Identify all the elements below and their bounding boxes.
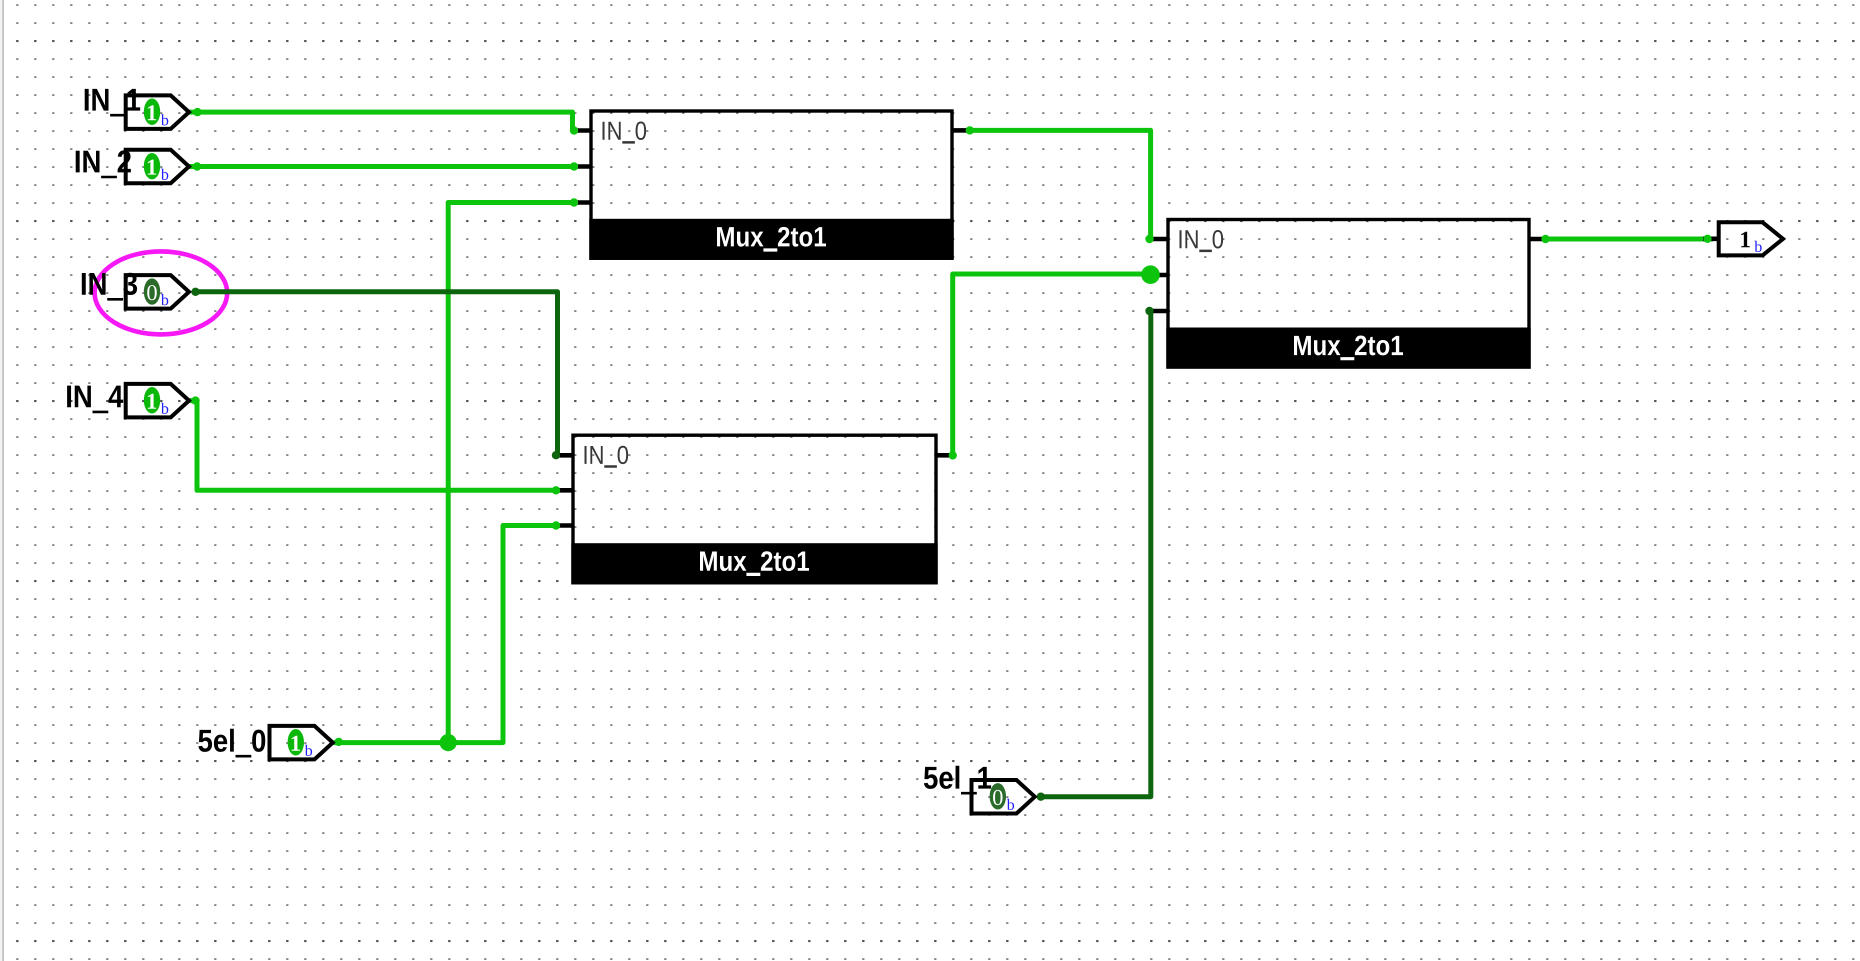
- wire terminal dot 2: [570, 126, 578, 134]
- wire net IN_3 (logic 0) to Mux U2 port IN_0: [195, 292, 558, 455]
- output pin showing value 1: [1719, 222, 1783, 255]
- dark wire terminal dot 3: [1037, 793, 1045, 801]
- wire terminal dot 4: [570, 162, 578, 170]
- wire terminal dot 11: [949, 451, 957, 459]
- wire net IN_1 to Mux U1 port IN_0: [189, 112, 573, 130]
- dark wire terminal dot 2: [552, 451, 560, 459]
- wire terminal dot 14: [335, 738, 343, 746]
- wire terminal dot 12: [1541, 235, 1549, 243]
- wire terminal dot 5: [191, 396, 199, 404]
- wire net Mux U3 output to output pin: [1546, 237, 1714, 242]
- input pin IN_2: [76, 150, 189, 184]
- wire net IN_4 to Mux U2 port IN_1: [190, 401, 557, 491]
- wire terminal dot 7: [552, 486, 560, 494]
- wire net IN_2 to Mux U1 port IN_1: [189, 164, 574, 169]
- Mux U3 port IN_1 stub: [1151, 273, 1169, 278]
- op block Mux_2to1 U1 body: [589, 111, 953, 260]
- canvas left border line: [2, 0, 4, 961]
- Mux U1 port IN_0 stub: [575, 128, 592, 133]
- input pin IN_3: [82, 273, 189, 309]
- junction node at Mux U3 port IN_1: [1141, 265, 1160, 284]
- input pin 5el_0: [198, 726, 332, 760]
- annotation ellipse around IN_3: [95, 251, 228, 334]
- wire net Mux U2 output to Mux U3 port IN_1: [953, 274, 1151, 455]
- dark wire terminal dot 4: [1145, 307, 1153, 315]
- Mux U3 output stub: [1529, 237, 1546, 242]
- Mux U2 port IN_0 stub: [556, 453, 574, 458]
- op block Mux_2to1 U3 body: [1166, 220, 1530, 369]
- Mux U2 port IN_1 stub: [556, 488, 574, 493]
- wire terminal dot 10: [1145, 235, 1153, 243]
- wire terminal dot 6: [570, 198, 578, 206]
- op block Mux_2to1 U2 body: [571, 435, 937, 584]
- output pin input stub: [1703, 237, 1717, 242]
- Mux U3 port IN_0 stub: [1151, 237, 1169, 242]
- wire terminal dot 8: [552, 521, 560, 529]
- wire terminal dot 9: [966, 126, 974, 134]
- Mux U2 output stub: [936, 453, 951, 458]
- Mux U1 port IN_1 stub: [575, 164, 592, 169]
- input pin 5el_1: [924, 766, 1035, 814]
- wire net 5el_0 branch to Mux U1 port SEL: [448, 203, 574, 743]
- Mux U3 port SEL stub: [1151, 309, 1169, 314]
- input pin IN_1: [85, 89, 189, 129]
- wire net 5el_0 trunk and branch to Mux U2 port SEL: [334, 526, 557, 743]
- Mux U2 port SEL stub: [556, 523, 574, 528]
- input pin IN_4: [67, 384, 189, 418]
- Mux U1 port SEL stub: [575, 200, 592, 205]
- junction node 5el_0 split: [440, 734, 457, 751]
- wire terminal dot 1: [193, 108, 201, 116]
- wire terminal dot 3: [193, 162, 201, 170]
- wire net 5el_1 (logic 0) to Mux U3 port SEL: [1040, 311, 1151, 797]
- dark wire terminal dot 1: [191, 288, 199, 296]
- wire net Mux U1 output to Mux U3 port IN_0: [966, 130, 1151, 239]
- Mux U1 output stub: [952, 128, 967, 133]
- wire terminal dot 13: [1703, 235, 1711, 243]
